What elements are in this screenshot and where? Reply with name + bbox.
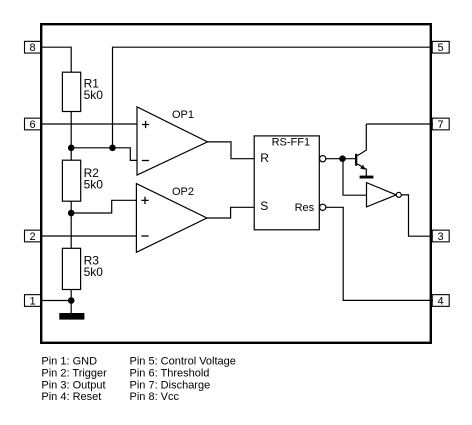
svg-text:1: 1: [30, 295, 36, 307]
svg-text:Pin 4: Reset: Pin 4: Reset: [41, 391, 101, 403]
svg-text:RS-FF1: RS-FF1: [272, 136, 311, 148]
pin 8 box: [25, 41, 41, 53]
wire to OP2 plus: [71, 200, 136, 213]
pin 5 box: [432, 41, 449, 53]
svg-text:Pin 1: GND: Pin 1: GND: [41, 356, 97, 368]
pin 2 box: [25, 230, 41, 242]
junction dot R1-R2 node: [68, 145, 75, 152]
wire pin8 to R1 top: [41, 47, 71, 72]
wire R2 bottom to R3 top: [70, 201, 72, 248]
svg-text:OP2: OP2: [172, 186, 194, 198]
svg-text:5k0: 5k0: [84, 178, 104, 192]
junction dot base node: [339, 155, 346, 162]
wire collector to pin7 discharge: [366, 123, 433, 125]
svg-text:Pin 5: Control Voltage: Pin 5: Control Voltage: [130, 356, 236, 368]
wire pin1 GND: [41, 300, 71, 302]
pin 7 box: [432, 118, 449, 130]
wire to inverter input: [343, 159, 367, 196]
junction dot GND node: [68, 297, 75, 304]
svg-text:5: 5: [437, 42, 443, 54]
bubble inverter output: [396, 192, 401, 197]
svg-text:Pin 7: Discharge: Pin 7: Discharge: [130, 379, 211, 391]
svg-text:2: 2: [30, 231, 36, 243]
svg-text:Res: Res: [295, 202, 315, 214]
svg-text:Pin 8: Vcc: Pin 8: Vcc: [130, 391, 180, 403]
junction dot R2-R3 node: [68, 210, 75, 217]
OP1 plus sign: [142, 121, 149, 128]
OP2 minus sign: [141, 235, 148, 237]
svg-text:5k0: 5k0: [84, 265, 104, 279]
transistor Q1 collector: [357, 124, 366, 156]
resistor R2: [62, 160, 80, 201]
wire Q output to transistor base: [326, 158, 355, 160]
wire OP1 output to R input: [208, 142, 255, 159]
bubble Q output: [320, 156, 326, 162]
wire junction row: [71, 147, 112, 149]
wire OP2 output to S input: [207, 207, 254, 218]
svg-text:R: R: [260, 151, 269, 165]
IC body outline: [41, 24, 431, 343]
wire to OP1 minus: [113, 148, 138, 161]
transistor base bar: [355, 154, 357, 166]
op-amp OP2: [136, 184, 207, 253]
emitter ground bar: [360, 176, 374, 179]
inverter U1: [367, 183, 397, 207]
svg-text:7: 7: [437, 119, 443, 131]
resistor R1: [62, 72, 80, 111]
pin 6 box: [25, 118, 41, 130]
OP1 minus sign: [142, 160, 149, 162]
svg-text:6: 6: [30, 119, 36, 131]
svg-text:8: 8: [30, 42, 36, 54]
svg-text:OP1: OP1: [172, 109, 194, 121]
svg-text:Pin 3: Output: Pin 3: Output: [41, 379, 105, 391]
wire pin5 control voltage: [113, 47, 431, 148]
wire pin6 threshold to OP1 +: [41, 123, 137, 125]
ground symbol: [59, 313, 84, 320]
svg-text:Pin 2: Trigger: Pin 2: Trigger: [41, 367, 107, 379]
pin 1 box: [25, 295, 41, 307]
bubble Res input: [320, 204, 326, 210]
resistor R3: [62, 248, 80, 289]
wire pin2 trigger to OP2 minus: [41, 235, 136, 237]
svg-text:S: S: [260, 199, 268, 213]
wire inverter output to pin3: [401, 195, 433, 236]
svg-text:3: 3: [437, 231, 443, 243]
wire R1 bottom to R2 top: [70, 112, 72, 161]
op-amp OP1: [137, 107, 208, 175]
transistor Q1 emitter: [357, 164, 366, 176]
emitter arrowhead: [360, 165, 365, 170]
wire R3 bottom to ground: [70, 290, 72, 314]
pin 3 box: [432, 230, 449, 242]
svg-text:Pin 6: Threshold: Pin 6: Threshold: [130, 367, 210, 379]
svg-text:5k0: 5k0: [84, 88, 104, 102]
wire Res to pin4 reset: [326, 207, 433, 300]
junction dot control node: [109, 145, 116, 152]
pin 4 box: [432, 295, 449, 307]
OP2 plus sign: [141, 197, 148, 204]
flip-flop RS-FF1 box: [254, 136, 319, 230]
svg-text:4: 4: [437, 295, 443, 307]
